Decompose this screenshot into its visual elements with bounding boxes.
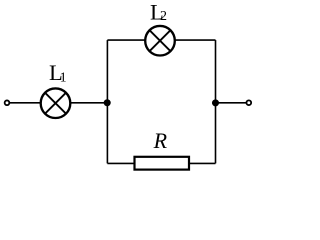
svg-text:1: 1	[60, 70, 67, 85]
svg-text:2: 2	[160, 9, 167, 24]
svg-text:R: R	[153, 128, 168, 153]
